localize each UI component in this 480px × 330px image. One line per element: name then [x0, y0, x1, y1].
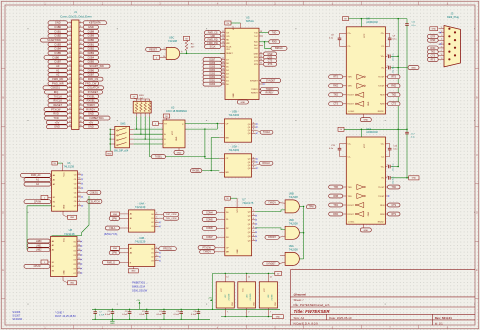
svg-text:GND: GND: [253, 301, 255, 306]
svg-text:LAB0: LAB0: [36, 240, 42, 243]
svg-text:C11 0.1u: C11 0.1u: [393, 65, 395, 73]
svg-text:C16 0.1u: C16 0.1u: [393, 176, 395, 184]
svg-text:Q3: Q3: [248, 133, 251, 135]
svg-text:O0: O0: [73, 241, 76, 243]
svg-text:22: 22: [80, 65, 82, 67]
svg-text:74LS139: 74LS139: [135, 239, 146, 243]
svg-text:2: 2: [253, 210, 254, 212]
svg-text:O3: O3: [73, 255, 76, 257]
svg-text:Q1: Q1: [248, 162, 251, 164]
svg-text:RXSEL: RXSEL: [87, 99, 96, 103]
svg-text:DE9_Plug: DE9_Plug: [447, 15, 459, 19]
svg-text:TXCLK: TXCLK: [54, 94, 63, 98]
svg-text:T1IN: T1IN: [348, 187, 353, 189]
svg-text:19: 19: [260, 31, 262, 33]
svg-text:27: 27: [222, 58, 224, 60]
svg-text:GND: GND: [64, 204, 66, 209]
svg-text:Id: 1/1: Id: 1/1: [435, 321, 443, 325]
svg-text:RESET: RESET: [53, 103, 62, 107]
svg-text:11: 11: [253, 122, 255, 124]
svg-text:25: 25: [222, 65, 224, 67]
svg-text:D6: D6: [226, 63, 228, 65]
svg-text:FM-P: 24,25,48,50: FM-P: 24,25,48,50: [55, 315, 76, 318]
svg-text:31: 31: [69, 86, 71, 88]
svg-text:GND: GND: [70, 217, 75, 219]
svg-text:11: 11: [253, 157, 255, 159]
svg-text:13: 13: [78, 249, 80, 251]
svg-text:4: 4: [441, 39, 442, 41]
svg-text:Title: FW7EKSER: Title: FW7EKSER: [294, 309, 331, 314]
svg-text:D: D: [476, 211, 478, 215]
svg-text:10: 10: [78, 195, 80, 197]
svg-text:0.1u: 0.1u: [411, 137, 415, 139]
svg-text:D1B7: D1B7: [55, 60, 62, 64]
svg-text:A: A: [2, 38, 4, 42]
svg-text:O0: O0: [74, 175, 77, 177]
svg-text:TXSEL: TXSEL: [87, 94, 96, 98]
svg-text:14: 14: [78, 244, 80, 246]
svg-text:7: 7: [270, 312, 271, 314]
svg-text:COM7: COM7: [206, 237, 213, 239]
svg-text:U7: U7: [242, 197, 246, 201]
svg-text:74HC175: 74HC175: [242, 201, 254, 205]
svg-text:D: D: [2, 211, 4, 215]
svg-text:Conn_02x25_Odd_Even: Conn_02x25_Odd_Even: [60, 14, 92, 18]
svg-text:Q1: Q1: [248, 220, 251, 222]
svg-text:A1: A1: [56, 68, 60, 72]
svg-text:7: 7: [69, 34, 70, 36]
svg-text:T2OUT: T2OUT: [378, 86, 385, 88]
svg-text:O2: O2: [151, 257, 154, 259]
svg-text:SCART_SW: SCART_SW: [89, 64, 104, 68]
svg-text:B: B: [2, 96, 4, 100]
svg-text:KiCad E.D.A. 8.0.9: KiCad E.D.A. 8.0.9: [294, 321, 319, 325]
svg-text:15: 15: [78, 173, 80, 175]
svg-text:Q3: Q3: [248, 236, 251, 238]
svg-text:FDLA: FDLA: [109, 227, 115, 230]
svg-text:C: C: [476, 153, 478, 157]
svg-text:R2OUT: R2OUT: [348, 104, 355, 106]
svg-text:O0: O0: [151, 249, 154, 251]
svg-text:TXRDY: TXRDY: [251, 89, 258, 91]
svg-text:GND: GND: [131, 271, 136, 273]
svg-text:O2: O2: [73, 250, 76, 252]
svg-text:50: 50: [80, 125, 82, 127]
svg-text:RS232: RS232: [378, 221, 384, 223]
svg-text:GND: GND: [276, 317, 281, 319]
svg-text:TOP_CPW: TOP_CPW: [166, 214, 178, 216]
svg-text:6: 6: [156, 221, 157, 223]
svg-text:C1-: C1-: [348, 46, 351, 48]
svg-text:SW1: SW1: [120, 123, 126, 126]
svg-text:RXD: RXD: [272, 42, 277, 44]
svg-text:VCC: VCC: [364, 33, 366, 38]
svg-text:GND: GND: [176, 136, 178, 141]
svg-text:14: 14: [270, 277, 272, 279]
svg-text:COM5: COM5: [206, 219, 213, 221]
svg-text:RXRDY: RXRDY: [266, 93, 275, 95]
svg-text:- U4A -: - U4A -: [138, 202, 146, 206]
svg-text:T1OUT: T1OUT: [378, 187, 385, 189]
svg-text:20: 20: [222, 83, 224, 85]
svg-text:5: 5: [156, 251, 157, 253]
svg-text:RXCLK: RXCLK: [53, 99, 62, 103]
svg-text:TXB: TXB: [333, 187, 338, 189]
svg-text:Date: 2025-05-10: Date: 2025-05-10: [329, 316, 352, 320]
svg-text:1: 1: [441, 27, 442, 29]
svg-text:+5V: +5V: [55, 120, 60, 124]
svg-text:GND: GND: [275, 301, 277, 306]
svg-text:1PW: 1PW: [112, 253, 118, 255]
svg-text:6: 6: [253, 227, 254, 229]
svg-text:Sheet: /: Sheet: /: [294, 298, 304, 302]
svg-text:12: 12: [80, 43, 82, 45]
svg-text:C15 0.1u: C15 0.1u: [393, 163, 395, 171]
svg-text:23: 23: [222, 72, 224, 74]
svg-text:A0: A0: [56, 64, 60, 68]
svg-text:RS232: RS232: [378, 111, 384, 113]
svg-text:FRD_CW: FRD_CW: [85, 81, 97, 85]
svg-text:RTS: RTS: [391, 214, 396, 216]
svg-text:U5: U5: [246, 16, 250, 20]
svg-text:PTXCW: PTXCW: [202, 248, 211, 250]
svg-text:74LS138: 74LS138: [64, 165, 75, 169]
svg-text:Q0: Q0: [248, 159, 251, 161]
svg-text:GND: GND: [368, 101, 370, 106]
svg-text:25: 25: [260, 63, 262, 65]
svg-text:9: 9: [253, 129, 254, 131]
svg-text:D2B3: D2B3: [88, 51, 95, 55]
svg-text:GND: GND: [70, 283, 75, 285]
svg-text:8: 8: [253, 167, 254, 169]
svg-text:R2IN: R2IN: [380, 214, 385, 216]
svg-text:74LS08: 74LS08: [289, 195, 299, 199]
svg-text:D1B6: D1B6: [53, 55, 60, 59]
svg-text:GND: GND: [88, 25, 94, 29]
svg-text:RxC: RxC: [254, 45, 258, 47]
svg-text:40: 40: [80, 104, 82, 106]
svg-text:CS8251: CS8251: [90, 192, 99, 194]
svg-text:A: A: [476, 38, 478, 42]
svg-text:SW_DIP_x04: SW_DIP_x04: [114, 150, 129, 153]
svg-text:RXSEL: RXSEL: [192, 171, 200, 173]
svg-text:39: 39: [69, 104, 71, 106]
svg-text:D0: D0: [226, 84, 228, 86]
svg-text:PTXCW: PTXCW: [51, 107, 61, 111]
svg-text:TXRDY: TXRDY: [203, 252, 211, 254]
svg-text:Rev: S01L01: Rev: S01L01: [435, 316, 453, 320]
svg-text:4: 4: [80, 26, 81, 28]
svg-text:9: 9: [69, 39, 70, 41]
svg-text:7: 7: [248, 312, 249, 314]
svg-text:22: 22: [260, 52, 262, 54]
svg-text:FWBETXD1: FWBETXD1: [90, 116, 105, 120]
svg-text:30: 30: [80, 82, 82, 84]
svg-text:TXD: TXD: [333, 95, 338, 97]
svg-text:10: 10: [252, 160, 254, 162]
svg-text:74LS08: 74LS08: [168, 39, 178, 43]
svg-text:Size: A4: Size: A4: [294, 316, 305, 320]
svg-text:Q1: Q1: [248, 224, 251, 226]
svg-text:D1B1: D1B1: [55, 29, 62, 33]
svg-text:RESET: RESET: [149, 49, 157, 51]
svg-text:44: 44: [80, 112, 82, 114]
svg-text:A0: A0: [53, 174, 55, 177]
svg-text:A2: A2: [52, 249, 54, 252]
svg-text:R1IN: R1IN: [380, 95, 385, 97]
svg-text:Q2: Q2: [248, 228, 251, 230]
svg-text:E: E: [2, 268, 4, 272]
svg-text:VCC: VCC: [64, 172, 66, 177]
svg-text:GND: GND: [113, 214, 118, 216]
svg-text:GND: GND: [107, 153, 112, 155]
svg-text:VCC: VCC: [233, 25, 235, 30]
svg-text:SYNDET: SYNDET: [266, 264, 276, 266]
svg-text:74LS139: 74LS139: [250, 294, 252, 301]
svg-text:VCC: VCC: [364, 143, 366, 148]
svg-text:D1B8: D1B8: [88, 29, 95, 33]
svg-text:15: 15: [222, 45, 224, 47]
svg-text:+5V: +5V: [136, 300, 140, 302]
svg-text:24: 24: [222, 69, 224, 71]
svg-text:GND: GND: [240, 102, 245, 104]
svg-text:U9D: U9D: [289, 218, 294, 222]
svg-text:6: 6: [80, 30, 81, 32]
svg-text:(8251A *CS): (8251A *CS): [104, 233, 117, 236]
svg-text:74LS393: 74LS393: [229, 148, 240, 152]
svg-text:8: 8: [253, 235, 254, 237]
svg-text:9: 9: [253, 239, 254, 241]
svg-text:74LS08: 74LS08: [289, 248, 299, 252]
svg-text:4: 4: [156, 247, 157, 249]
svg-text:RN1: RN1: [139, 95, 144, 97]
svg-text:0.1uF: 0.1uF: [105, 314, 111, 316]
svg-text:T1OUT: T1OUT: [378, 77, 385, 79]
svg-text:7: 7: [441, 50, 442, 52]
svg-text:0.1u: 0.1u: [412, 25, 416, 27]
svg-text:32: 32: [80, 86, 82, 88]
svg-text:A1: A1: [130, 213, 132, 216]
svg-text:J1: J1: [74, 10, 77, 14]
svg-text:11: 11: [78, 258, 80, 260]
svg-text:46: 46: [80, 117, 82, 119]
svg-text:BRCLK: BRCLK: [275, 48, 283, 50]
svg-text:TXRDY: TXRDY: [86, 103, 95, 107]
svg-text:A0: A0: [130, 252, 132, 255]
svg-text:38: 38: [80, 99, 82, 101]
svg-text:CSLATCH: CSLATCH: [87, 86, 99, 90]
svg-text:A1: A1: [52, 244, 54, 247]
svg-text:21: 21: [69, 65, 71, 67]
svg-text:TXD: TXD: [391, 95, 396, 97]
svg-text:74LS08: 74LS08: [272, 295, 274, 301]
svg-text:O2: O2: [74, 183, 77, 185]
svg-text:D2: D2: [226, 228, 228, 230]
svg-text:SYNDET: SYNDET: [88, 90, 99, 94]
svg-text:O3: O3: [74, 188, 77, 190]
svg-text:D0: D0: [226, 212, 228, 214]
svg-text:3: 3: [69, 26, 70, 28]
svg-text:E: E: [476, 268, 478, 272]
svg-text:TXSEL: TXSEL: [155, 157, 163, 159]
svg-text:13: 13: [222, 38, 224, 40]
svg-text:@haumel: @haumel: [294, 293, 307, 297]
svg-text:D1: D1: [226, 80, 228, 82]
svg-text:D006_D010W: D006_D010W: [132, 290, 148, 293]
svg-text:GND: GND: [233, 93, 235, 98]
svg-text:5: 5: [156, 217, 157, 219]
svg-text:DSR: DSR: [430, 40, 435, 42]
svg-text:8251A: 8251A: [246, 19, 254, 23]
svg-text:C2-: C2-: [381, 156, 384, 158]
svg-text:A1: A1: [130, 247, 132, 250]
svg-text:Q2: Q2: [248, 130, 251, 132]
svg-text:14: 14: [80, 47, 82, 49]
svg-text:E1: E1: [53, 197, 55, 199]
svg-text:TXCLK: TXCLK: [263, 132, 271, 134]
svg-text:TXD: TXD: [272, 33, 277, 35]
svg-text:E3: E3: [53, 206, 55, 208]
svg-text:2: 2: [387, 165, 388, 167]
svg-text:0.1uF: 0.1uF: [122, 314, 128, 316]
svg-text:LAB1: LAB1: [36, 244, 42, 247]
svg-text:0.1uF: 0.1uF: [139, 314, 145, 316]
svg-text:SYNDET: SYNDET: [250, 80, 259, 82]
svg-text:TxC: TxC: [254, 36, 258, 38]
svg-text:14: 14: [248, 277, 250, 279]
svg-text:DTR: DTR: [254, 57, 259, 59]
svg-text:SCLK: SCLK: [210, 47, 216, 49]
svg-text:19: 19: [69, 60, 71, 62]
svg-text:36: 36: [80, 95, 82, 97]
svg-text:RXRDY: RXRDY: [86, 107, 95, 111]
svg-text:Q0: Q0: [248, 124, 251, 126]
svg-text:7: 7: [156, 225, 157, 227]
svg-text:U8: U8: [69, 228, 73, 232]
svg-text:T1IN: T1IN: [348, 77, 353, 79]
svg-text:O1: O1: [151, 253, 154, 255]
svg-text:U9C: U9C: [169, 36, 174, 40]
svg-text:T2OUT: T2OUT: [378, 196, 385, 198]
svg-text:File: FW7EKSER.kicad_sch: File: FW7EKSER.kicad_sch: [294, 303, 330, 307]
svg-text:8: 8: [79, 204, 80, 206]
svg-text:- U4B -: - U4B -: [138, 236, 146, 240]
svg-text:14: 14: [226, 277, 228, 279]
svg-text:A0: A0: [130, 217, 132, 220]
svg-text:D1B0: D1B0: [209, 84, 215, 86]
svg-text:9: 9: [79, 200, 80, 202]
svg-text:R1OUT: R1OUT: [348, 205, 355, 207]
svg-text:22: 22: [222, 76, 224, 78]
svg-text:10: 10: [252, 126, 254, 128]
svg-text:Q0: Q0: [248, 215, 251, 217]
svg-text:1: 1: [69, 21, 70, 23]
svg-text:RTS: RTS: [268, 64, 273, 66]
svg-text:3: 3: [441, 35, 442, 37]
svg-text:35: 35: [69, 95, 71, 97]
svg-text:FWD_RD: FWD_RD: [52, 77, 63, 81]
svg-text:8: 8: [441, 54, 442, 56]
svg-text:15: 15: [69, 52, 71, 54]
svg-text:RESET: RESET: [226, 53, 233, 55]
svg-text:FWD_A0: FWD_A0: [31, 174, 41, 177]
svg-text:7: 7: [227, 312, 228, 314]
svg-text:24: 24: [80, 69, 82, 71]
svg-text:R2OUT: R2OUT: [348, 214, 355, 216]
svg-text:CXO 18.8608MHz: CXO 18.8608MHz: [166, 109, 188, 113]
svg-text:74LS390: 74LS390: [228, 294, 230, 301]
svg-text:25: 25: [69, 73, 71, 75]
svg-text:42: 42: [80, 108, 82, 110]
svg-text:GND: GND: [88, 125, 94, 129]
svg-text:2: 2: [80, 21, 81, 23]
svg-text:A2: A2: [56, 73, 60, 77]
svg-text:D1B4: D1B4: [55, 47, 62, 51]
svg-text:41: 41: [69, 108, 71, 110]
svg-text:GND: GND: [88, 112, 94, 116]
svg-text:T2IN: T2IN: [348, 196, 353, 198]
svg-text:C10 0.1u: C10 0.1u: [393, 53, 395, 61]
svg-text:O7: O7: [73, 273, 76, 275]
svg-text:43: 43: [69, 112, 71, 114]
svg-text:FWD_WR: FWD_WR: [52, 81, 64, 85]
svg-text:U6: U6: [67, 161, 71, 165]
svg-text:11: 11: [222, 31, 224, 33]
svg-text:R1IN: R1IN: [380, 205, 385, 207]
svg-text:11: 11: [69, 43, 71, 45]
svg-text:GND: GND: [412, 178, 417, 180]
svg-text:V5-: V5-: [381, 178, 384, 180]
svg-text:O5: O5: [73, 264, 76, 266]
svg-text:21: 21: [222, 79, 224, 81]
svg-text:VCC: VCC: [64, 237, 66, 242]
svg-text:GND: GND: [432, 29, 437, 31]
svg-text:74LS08: 74LS08: [289, 222, 299, 226]
svg-text:R2IN: R2IN: [380, 104, 385, 106]
svg-text:A2: A2: [53, 183, 55, 186]
svg-text:GND: GND: [177, 152, 182, 154]
svg-text:CTS: CTS: [391, 104, 396, 106]
svg-text:8: 8: [253, 132, 254, 134]
svg-text:C2-: C2-: [381, 46, 384, 48]
svg-text:GND: GND: [55, 21, 61, 25]
svg-text:14: 14: [78, 178, 80, 180]
svg-text:RxD: RxD: [254, 42, 258, 44]
svg-text:16: 16: [80, 52, 82, 54]
svg-text:IRQ: IRQ: [54, 90, 59, 94]
svg-text:E2: E2: [53, 202, 55, 204]
svg-text:A0: A0: [52, 240, 54, 243]
svg-text:RXB: RXB: [333, 196, 338, 198]
svg-text:LAB2: LAB2: [36, 249, 42, 252]
svg-text:GND: GND: [368, 211, 370, 216]
svg-text:BM08_0514: BM08_0514: [132, 286, 146, 289]
svg-text:33: 33: [69, 91, 71, 93]
svg-text:* GND *: * GND *: [55, 311, 64, 314]
svg-text:D3: D3: [226, 73, 228, 75]
svg-text:D2B0: D2B0: [88, 38, 95, 42]
svg-text:B: B: [476, 96, 478, 100]
svg-text:A1: A1: [53, 179, 55, 182]
svg-text:U10: U10: [366, 127, 371, 131]
svg-text:T2IN: T2IN: [348, 86, 353, 88]
svg-text:FWBETXD1 ←: FWBETXD1 ←: [132, 282, 148, 285]
svg-text:GND: GND: [363, 230, 368, 232]
svg-text:13: 13: [78, 182, 80, 184]
svg-text:O5: O5: [74, 197, 77, 199]
svg-text:O7: O7: [74, 206, 77, 208]
svg-text:SF302W: SF302W: [12, 318, 22, 321]
